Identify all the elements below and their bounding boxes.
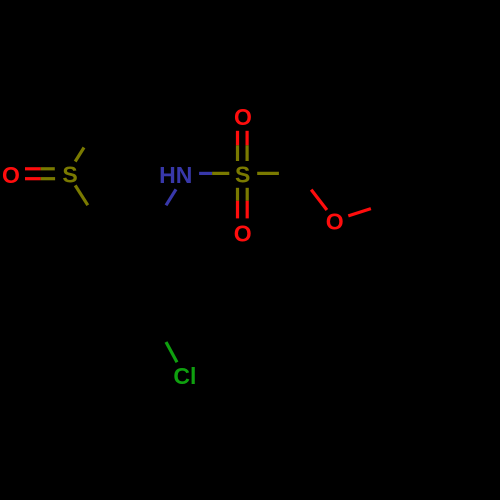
- bond S1-CH3 olive half: [75, 148, 84, 162]
- svg-text:O: O: [326, 209, 344, 235]
- bond O1=S1 upper line olive half: [41, 167, 55, 170]
- bond N-C2(ring) blue half: [166, 189, 176, 205]
- bond S2=O2b right line olive half: [246, 188, 249, 201]
- svg-text:S: S: [62, 162, 77, 188]
- svg-text:Cl: Cl: [173, 363, 196, 389]
- svg-text:O: O: [234, 104, 252, 130]
- bond S2=O2a right line olive half: [246, 145, 249, 161]
- svg-text:O: O: [2, 162, 20, 188]
- bond S2=O2b left line olive half: [236, 188, 239, 201]
- bond S2=O2b right line red half: [246, 201, 249, 219]
- bond S2=O2a right line red half: [246, 131, 249, 146]
- svg-text:HN: HN: [159, 162, 192, 188]
- bond N-S2 blue half: [199, 172, 212, 175]
- bond O1=S1 lower line red half: [25, 177, 41, 180]
- bond S1-C1(ring) olive half: [75, 185, 88, 205]
- bond N-S2 olive half: [212, 172, 229, 175]
- bond S2-C2(furan) olive half: [257, 172, 279, 175]
- bond O1=S1 upper line red half: [25, 167, 41, 170]
- svg-text:O: O: [234, 221, 252, 247]
- bond Cl-C5 green half: [166, 342, 177, 362]
- svg-text:S: S: [235, 162, 250, 188]
- bond S2=O2b left line red half: [236, 201, 239, 219]
- bond O1=S1 lower line olive half: [41, 177, 55, 180]
- bond O3-C2 red half: [311, 190, 327, 210]
- bond S2=O2a left line olive half: [236, 145, 239, 161]
- bond S2=O2a left line red half: [236, 131, 239, 146]
- bond O3-C7a red half: [348, 209, 371, 216]
